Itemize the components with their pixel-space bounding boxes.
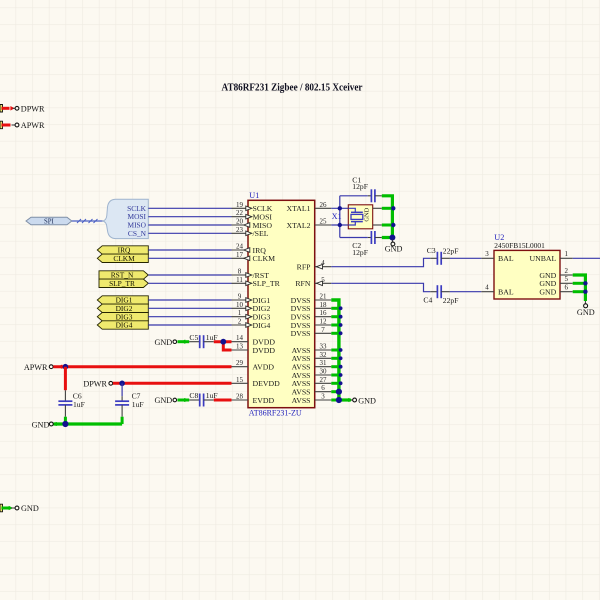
junction APWR / C6 — [63, 364, 69, 370]
capacitor C6 1uF — [58, 390, 84, 417]
svg-text:DIG4: DIG4 — [253, 321, 271, 330]
wire RFN net — [331, 283, 430, 291]
junction gnd bus — [339, 356, 343, 360]
svg-text:1uF: 1uF — [73, 400, 85, 409]
svg-text:20: 20 — [236, 218, 244, 226]
svg-text:2450FB15L0001: 2450FB15L0001 — [494, 241, 545, 250]
wire DPWR to DEVDD (red) — [113, 382, 232, 385]
wire RST_N net — [148, 274, 231, 276]
wire DVSS/AVSS ground bus (green) — [331, 300, 351, 400]
junction C5 / DVDD — [220, 339, 226, 345]
junction xtal gnd top — [391, 206, 395, 210]
wire MOSI net — [148, 216, 231, 218]
svg-text:22: 22 — [236, 209, 244, 217]
wire C7 drop — [121, 383, 123, 396]
svg-text:UNBAL: UNBAL — [529, 254, 556, 263]
power port APWR (top left) — [0, 121, 45, 130]
svg-text:2: 2 — [238, 318, 242, 326]
capacitor C3 22pF — [427, 246, 459, 265]
U1 pin 16 DVSS — [291, 309, 332, 321]
power port DPWR (top left) — [0, 104, 45, 113]
svg-text:GND: GND — [577, 308, 595, 317]
U1 pin 8 /RST — [232, 268, 270, 280]
wire DIG4 net — [148, 324, 231, 326]
op IC U1 AT86RF231 body — [248, 200, 315, 407]
junction gnd bus — [339, 331, 343, 335]
U1 pin 26 XTAL1 — [286, 201, 331, 213]
svg-text:DEVDD: DEVDD — [253, 379, 281, 388]
svg-text:1uF: 1uF — [132, 400, 144, 409]
ground port (bottom left) — [0, 504, 39, 513]
svg-text:DPWR: DPWR — [21, 104, 45, 113]
capacitor C2 12pF — [340, 231, 382, 257]
svg-text:6: 6 — [564, 284, 568, 292]
svg-text:25: 25 — [320, 218, 328, 226]
U1 pin 6 AVSS — [292, 384, 332, 396]
svg-text:23: 23 — [236, 226, 244, 234]
svg-text:12pF: 12pF — [352, 182, 368, 191]
svg-text:12pF: 12pF — [352, 248, 368, 257]
wire C6 drop (red) — [64, 367, 67, 391]
wire DIG2 net — [148, 307, 231, 309]
port DIG1 — [97, 296, 148, 305]
junction gnd bus — [339, 315, 343, 319]
svg-text:U1: U1 — [249, 191, 259, 200]
harness cable — [72, 219, 103, 223]
wire XTAL1 net — [331, 207, 348, 209]
wire xtal ground bus (green) — [382, 196, 393, 238]
svg-text:/SEL: /SEL — [253, 229, 269, 238]
power label DPWR (bottom) — [83, 380, 121, 389]
svg-text:SPI: SPI — [44, 219, 55, 226]
U1 pin 7 DVSS — [291, 326, 332, 338]
svg-text:AVDD: AVDD — [253, 363, 275, 372]
svg-text:GND: GND — [21, 504, 39, 513]
svg-text:29: 29 — [236, 359, 244, 367]
svg-text:SLP_TR: SLP_TR — [253, 279, 281, 288]
junction balun gnd 6 — [583, 290, 587, 294]
U1 pin 9 DIG1 — [232, 293, 271, 305]
svg-text:GND: GND — [385, 244, 403, 253]
svg-text:4: 4 — [485, 284, 489, 292]
U2 pin 4 BAL — [481, 284, 514, 297]
U1 pin 19 SCLK — [232, 201, 273, 213]
balun U2 2450FB15L0001 body — [494, 250, 560, 299]
U1 pin 2 DIG4 — [232, 318, 271, 330]
power label APWR (bottom) — [24, 363, 62, 372]
U1 pin 21 DVSS — [291, 293, 332, 305]
svg-text:1: 1 — [564, 250, 568, 258]
svg-text:32: 32 — [320, 351, 328, 359]
U1 pin 15 DEVDD — [232, 376, 281, 388]
wire RFP net — [331, 258, 430, 266]
capacitor C1 12pF — [340, 176, 382, 203]
svg-text:GND: GND — [539, 288, 556, 297]
wire gnd to C8 (green) — [178, 399, 190, 402]
svg-text:GND: GND — [154, 396, 172, 405]
svg-text:22pF: 22pF — [443, 246, 459, 255]
wire UNBAL output — [573, 257, 600, 259]
svg-text:DVSS: DVSS — [291, 329, 311, 338]
U1 pin 20 MISO — [232, 218, 273, 230]
wire DIG1 net — [148, 299, 231, 301]
svg-text:APWR: APWR — [21, 121, 45, 130]
U1 pin 32 AVSS — [292, 351, 332, 363]
junction gnd bus — [339, 381, 343, 385]
U1 pin 11 SLP_TR — [232, 276, 281, 288]
svg-text:5: 5 — [564, 275, 568, 283]
junction balun gnd 5 — [583, 281, 587, 285]
junction xtal gnd C2 — [389, 235, 395, 241]
svg-text:DPWR: DPWR — [83, 380, 107, 389]
wire SCLK net — [148, 207, 231, 209]
svg-text:11: 11 — [236, 276, 243, 284]
U1 pin 5 RFN — [295, 276, 331, 288]
U1 pin 1 DIG3 — [232, 309, 271, 321]
svg-text:19: 19 — [236, 201, 244, 209]
svg-text:27: 27 — [320, 376, 328, 384]
capacitor C8 1uF — [189, 391, 217, 406]
junction gnd bus — [339, 373, 343, 377]
svg-text:AT86RF231 Zigbee / 802.15 Xcei: AT86RF231 Zigbee / 802.15 Xceiver — [222, 82, 363, 94]
U1 pin 33 AVSS — [292, 343, 332, 355]
U1 pin 24 IRQ — [232, 243, 267, 255]
U1 pin 17 CLKM — [232, 251, 276, 263]
svg-text:33: 33 — [320, 343, 328, 351]
junction XTAL1 — [338, 206, 342, 210]
svg-text:AVSS: AVSS — [292, 396, 311, 405]
svg-text:RFP: RFP — [297, 263, 312, 272]
wire SLP_TR net — [148, 282, 231, 284]
wire APWR to AVDD (red) — [53, 365, 231, 368]
wire CLKM net — [148, 257, 231, 259]
U2 pin 6 GND — [539, 284, 572, 297]
svg-text:BAL: BAL — [498, 254, 514, 263]
svg-text:21: 21 — [320, 293, 328, 301]
svg-text:26: 26 — [320, 201, 328, 209]
U1 pin 4 RFP — [297, 259, 332, 271]
port SLP_TR — [99, 279, 148, 288]
svg-text:APWR: APWR — [24, 363, 48, 372]
svg-text:1: 1 — [238, 309, 242, 317]
svg-text:C8: C8 — [189, 391, 198, 400]
U2 pin 5 GND — [539, 275, 572, 288]
U1 pin 28 EVDD — [232, 393, 275, 405]
svg-text:15: 15 — [236, 376, 244, 384]
svg-text:7: 7 — [321, 326, 325, 334]
ground symbol (C8) — [154, 396, 185, 405]
wire gnd rail (green) — [53, 422, 122, 425]
wire xtal left vertical — [339, 196, 341, 238]
wire C5 to DVDD pins (red) — [214, 342, 232, 350]
ground symbol (crystal) — [385, 239, 403, 253]
wire C4 to balun — [450, 291, 481, 293]
wire C8 to EVDD (red) — [214, 399, 232, 402]
svg-text:SLP_TR: SLP_TR — [109, 279, 135, 288]
svg-text:CLKM: CLKM — [113, 254, 135, 263]
U1 pin 23 /SEL — [232, 226, 269, 238]
svg-text:12: 12 — [320, 318, 328, 326]
U1 pin 14 DVDD — [232, 334, 276, 346]
svg-text:6: 6 — [321, 384, 325, 392]
junction gnd rail / C6 — [62, 421, 68, 427]
wire C3 to balun — [450, 257, 481, 259]
wire MISO net — [148, 224, 231, 226]
U1 pin 29 AVDD — [232, 359, 275, 371]
svg-text:10: 10 — [236, 301, 244, 309]
wire balun ground bus (green) — [573, 275, 586, 301]
port DIG2 — [97, 304, 148, 313]
U1 pin 27 AVSS — [292, 376, 332, 388]
svg-text:16: 16 — [320, 309, 328, 317]
svg-text:AT86RF231-ZU: AT86RF231-ZU — [249, 408, 302, 417]
U1 pin 22 MOSI — [232, 209, 273, 221]
svg-text:17: 17 — [236, 251, 244, 259]
U1 pin 13 DVDD — [232, 343, 276, 355]
svg-text:24: 24 — [236, 243, 244, 251]
svg-text:XTAL2: XTAL2 — [286, 221, 310, 230]
ground label near C2 — [0, 0, 1, 1]
svg-text:9: 9 — [238, 293, 242, 301]
wire XTAL2 net — [331, 224, 348, 226]
U1 pin 25 XTAL2 — [286, 218, 331, 230]
junction DPWR / C7 — [119, 381, 125, 387]
svg-text:BAL: BAL — [498, 288, 514, 297]
U2 pin 1 UNBAL — [529, 250, 572, 263]
svg-text:GND: GND — [154, 338, 172, 347]
svg-text:31: 31 — [320, 359, 328, 367]
junction gnd bus — [339, 348, 343, 352]
svg-text:GND: GND — [32, 420, 50, 429]
svg-text:XTAL1: XTAL1 — [286, 204, 310, 213]
svg-text:8: 8 — [238, 268, 242, 276]
svg-text:13: 13 — [236, 343, 244, 351]
junction gnd bus — [339, 306, 343, 310]
harness port SPI — [26, 217, 72, 225]
U2 pin 2 GND — [539, 267, 572, 280]
svg-text:3: 3 — [321, 393, 325, 401]
junction gnd bus pin6 — [336, 389, 342, 395]
port RST_N — [99, 271, 148, 280]
ground symbol (U1 AVSS) — [349, 396, 376, 405]
junction xtal gnd bottom — [391, 223, 395, 227]
U1 pin 3 AVSS — [292, 393, 332, 405]
svg-text:C4: C4 — [423, 296, 432, 305]
svg-text:GND: GND — [363, 207, 370, 221]
svg-text:C5: C5 — [189, 333, 198, 342]
svg-text:C3: C3 — [427, 246, 436, 255]
U1 pin 31 AVSS — [292, 359, 332, 371]
capacitor C7 1uF — [115, 391, 144, 416]
U2 pin 3 BAL — [481, 250, 514, 263]
svg-text:22pF: 22pF — [443, 296, 459, 305]
U1 pin 10 DIG2 — [232, 301, 271, 313]
ground symbol (balun) — [577, 301, 595, 317]
wire C6 to gnd (green) — [64, 417, 67, 424]
svg-text:3: 3 — [485, 250, 489, 258]
svg-text:X1: X1 — [332, 212, 342, 221]
capacitor C5 1uF — [189, 333, 217, 348]
wire C7 to gnd (green) — [121, 417, 124, 424]
wire gnd to C5 (green) — [178, 340, 190, 343]
svg-text:14: 14 — [236, 334, 244, 342]
U1 pin 30 AVSS — [292, 368, 332, 380]
svg-text:CLKM: CLKM — [253, 254, 276, 263]
ground symbol (C6/C7) — [32, 420, 60, 429]
svg-text:28: 28 — [236, 393, 244, 401]
svg-text:RFN: RFN — [295, 279, 311, 288]
junction XTAL2 — [338, 223, 342, 227]
svg-text:GND: GND — [358, 396, 376, 405]
junction gnd bus — [339, 323, 343, 327]
U1 pin 18 DVSS — [291, 301, 332, 313]
svg-text:EVDD: EVDD — [253, 396, 275, 405]
svg-text:2: 2 — [564, 267, 568, 275]
wire IRQ net — [148, 249, 231, 251]
capacitor C4 22pF — [423, 285, 458, 305]
port DIG3 — [97, 312, 148, 321]
port DIG4 — [97, 321, 148, 330]
port IRQ — [97, 246, 148, 255]
wire CS_N net — [148, 232, 231, 234]
svg-text:DIG4: DIG4 — [116, 321, 133, 330]
svg-text:30: 30 — [320, 368, 328, 376]
U1 pin 12 DVSS — [291, 318, 332, 330]
svg-text:18: 18 — [320, 301, 328, 309]
wire DIG3 net — [148, 316, 231, 318]
svg-text:DVDD: DVDD — [253, 346, 276, 355]
junction gnd bus — [339, 365, 343, 369]
port CLKM — [97, 254, 148, 263]
harness connector (SPI breakout) — [103, 199, 148, 238]
crystal X1 — [348, 205, 382, 229]
ground symbol (C5) — [154, 338, 185, 347]
svg-text:CS_N: CS_N — [128, 229, 147, 238]
junction gnd bus pin3 — [336, 397, 342, 403]
